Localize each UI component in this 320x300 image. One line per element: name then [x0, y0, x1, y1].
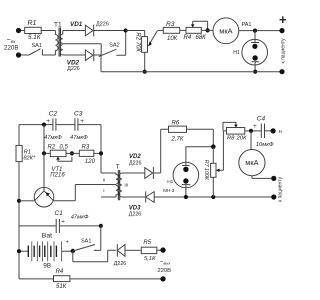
- svg-text:Н1: Н1: [167, 179, 173, 185]
- rheostat R2 0,5: [48, 144, 72, 161]
- wire input to R1: [21, 30, 25, 32]
- lamp H1 МН-3: [163, 147, 198, 197]
- svg-text:+: +: [279, 12, 287, 27]
- svg-text:R7 100К: R7 100К: [203, 160, 209, 181]
- wire T2 sec top to VD2: [122, 172, 145, 174]
- svg-text:0,5: 0,5: [60, 144, 69, 150]
- svg-text:VD3: VD3: [129, 205, 141, 211]
- diode VD1 Д226: [70, 21, 109, 36]
- svg-text:C3: C3: [74, 110, 83, 117]
- node dot VD1/SA2: [124, 29, 128, 33]
- svg-text:10К: 10К: [167, 36, 178, 42]
- wire diode to R5: [125, 249, 141, 251]
- wire R3 to T2 node: [94, 152, 101, 154]
- terminal meter out: [271, 176, 276, 181]
- svg-text:R8: R8: [227, 136, 235, 142]
- left rail bottom circuit: [18, 125, 20, 279]
- junction dot R3 right: [99, 151, 103, 155]
- wire PA1 to output terminal: [239, 30, 282, 32]
- svg-text:Д226: Д226: [129, 212, 141, 218]
- svg-text:T1: T1: [54, 21, 62, 28]
- bottom rail to patient terminal: [154, 196, 274, 198]
- wire emitter to T2 center tap: [54, 185, 116, 201]
- svg-text:+: +: [80, 118, 84, 125]
- potentiometer R7 100K (vertical): [203, 131, 224, 197]
- bottom rail with R4: [19, 278, 163, 280]
- wire base: [19, 200, 34, 202]
- svg-text:47мкФ: 47мкФ: [44, 135, 62, 141]
- svg-text:C4: C4: [257, 115, 266, 122]
- junction dot R2 bottom on rail: [143, 70, 147, 74]
- svg-text:Н1: Н1: [233, 50, 240, 56]
- junction dot R2 right: [70, 151, 74, 155]
- potentiometer R8 20K (rheostat): [223, 122, 247, 141]
- svg-text:+: +: [61, 219, 65, 225]
- svg-text:5,1К: 5,1К: [144, 256, 156, 262]
- svg-text:R2 70К: R2 70К: [135, 32, 141, 52]
- junction dot base/R1: [17, 199, 21, 203]
- svg-text:SA1: SA1: [81, 238, 91, 244]
- potentiometer R4 68K (rheostat): [184, 21, 208, 41]
- svg-text:Т: Т: [116, 164, 120, 170]
- svg-text:Bat: Bat: [42, 233, 52, 240]
- wire VD2 to R6 riser: [153, 129, 168, 173]
- top wire bottom circuit: [19, 125, 101, 173]
- svg-text:R3: R3: [166, 21, 175, 28]
- svg-text:Д226: Д226: [114, 261, 126, 267]
- svg-text:III: III: [124, 183, 128, 189]
- svg-text:+: +: [46, 118, 50, 125]
- svg-text:R3: R3: [82, 144, 90, 150]
- svg-text:+: +: [66, 240, 69, 246]
- svg-text:н: н: [279, 129, 282, 135]
- svg-text:10мкФ: 10мкФ: [256, 142, 274, 148]
- wire T1 sec top to VD1: [63, 30, 86, 32]
- diode VD2 Д226 (bottom): [129, 154, 153, 179]
- svg-text:5.1К: 5.1К: [28, 34, 41, 41]
- diode VD3 Д226: [129, 191, 154, 217]
- wire wiper to R3: [157, 29, 163, 31]
- svg-text:мкА: мкА: [219, 26, 232, 35]
- output terminal top (Uвых): [158, 247, 172, 274]
- resistor R5 5,1K: [141, 240, 157, 262]
- resistor R6 2,7K: [169, 121, 187, 143]
- svg-text:VD1: VD1: [70, 21, 83, 28]
- resistor R1 5.1K: [25, 20, 42, 41]
- capacitor C1 47мкФ: [19, 210, 101, 233]
- svg-text:R2: R2: [48, 144, 56, 150]
- wire R6 to node: [187, 129, 214, 147]
- output terminal top right: [279, 12, 287, 33]
- resistor R4 51K: [54, 269, 70, 290]
- wire R3 to R4: [180, 29, 186, 31]
- wire VD1 to node: [94, 30, 126, 32]
- lamp H1 (neon): [233, 31, 267, 72]
- output terminal bottom: [160, 276, 165, 281]
- wire jog battery to diode: [73, 250, 116, 261]
- resistor R3 10K: [163, 21, 179, 42]
- svg-text:R4: R4: [56, 269, 64, 275]
- svg-text:220В: 220В: [4, 45, 18, 52]
- svg-text:PA1: PA1: [242, 22, 252, 28]
- wire C2 node down to R2: [44, 125, 50, 154]
- bottom rail top circuit: [101, 71, 282, 73]
- switch SA2: [99, 31, 126, 57]
- wire node down to bottom rail: [100, 55, 102, 72]
- potentiometer R2 70K (vertical): [135, 31, 158, 72]
- node dot R6/R7/H1: [211, 144, 216, 149]
- wire H1 to node: [186, 146, 213, 148]
- svg-text:II: II: [103, 177, 106, 183]
- wire C1 node down to SA1 contact: [94, 226, 101, 251]
- svg-text:51К: 51К: [56, 284, 67, 290]
- wire R2 to R3: [66, 152, 79, 154]
- transformer T2: [101, 164, 128, 200]
- terminal rail out: [271, 194, 276, 199]
- svg-text:20К: 20К: [236, 136, 247, 142]
- svg-text:Д226: Д226: [67, 66, 79, 72]
- battery Bat 9В: [19, 233, 73, 270]
- svg-text:мкА: мкА: [245, 158, 258, 167]
- capacitor C4 10мкФ: [253, 115, 274, 148]
- svg-text:VD2: VD2: [129, 154, 141, 160]
- capacitor C3 47мкФ: [70, 110, 88, 141]
- svg-text:R5: R5: [143, 240, 151, 246]
- svg-text:к пациенту: к пациенту: [281, 38, 287, 64]
- rail dot R7 bottom: [211, 195, 215, 199]
- svg-text:к пациенту: к пациенту: [277, 176, 283, 202]
- svg-text:9В: 9В: [43, 263, 51, 270]
- svg-text:C1: C1: [55, 210, 64, 217]
- input terminal bottom: [16, 52, 21, 57]
- transistor VT1 П216: [34, 153, 65, 207]
- node dot C2/emitter: [42, 123, 46, 127]
- node dot C1 right: [99, 224, 103, 228]
- svg-text:~вых: ~вых: [160, 260, 172, 266]
- svg-text:68К: 68К: [196, 35, 207, 41]
- wire C4 to terminal н: [265, 130, 274, 132]
- node dot R8/C4/meter: [249, 129, 253, 133]
- node dot H1 top: [253, 29, 257, 33]
- junction dot R4/wiper: [206, 28, 210, 32]
- svg-text:R1: R1: [24, 149, 31, 155]
- svg-text:2,7К: 2,7К: [171, 136, 184, 142]
- switch SA1 (mains): [21, 43, 56, 55]
- svg-text:R4: R4: [184, 35, 192, 41]
- wire T1 sec bottom to VD2: [63, 54, 86, 56]
- terminal н: [271, 128, 282, 135]
- svg-text:+: +: [253, 123, 257, 130]
- wire R4 to PA1: [201, 29, 213, 31]
- svg-text:47мкФ: 47мкФ: [71, 215, 89, 221]
- svg-text:47мкФ: 47мкФ: [70, 135, 88, 141]
- svg-text:П216: П216: [50, 173, 65, 179]
- capacitor C2 47мкФ: [44, 110, 62, 141]
- svg-text:82К*: 82К*: [24, 156, 36, 162]
- diode Д226 (output): [114, 244, 126, 267]
- wire R1 to T1 primary: [41, 30, 55, 32]
- meter мкА (bottom): [239, 131, 274, 179]
- svg-text:SA1: SA1: [32, 43, 42, 49]
- wire R8 to C4 node: [245, 130, 261, 132]
- diode VD2 Д226: [67, 49, 94, 72]
- junction dot R2 left / emitter: [42, 151, 46, 155]
- svg-text:Д226: Д226: [129, 160, 141, 166]
- switch SA1 (battery): [71, 238, 95, 253]
- junction dot battery left rail: [17, 249, 21, 253]
- svg-text:R6: R6: [172, 121, 180, 127]
- svg-text:МН-3: МН-3: [163, 188, 174, 193]
- svg-text:I: I: [103, 188, 104, 194]
- wire node to R2 top: [126, 31, 145, 37]
- meter PA1 мкА: [213, 18, 252, 44]
- wire R5 to output terminal: [157, 249, 163, 251]
- transformer T1: [54, 21, 101, 56]
- wire T2 sec bottom to VD3: [122, 196, 146, 198]
- svg-text:Д226: Д226: [96, 21, 109, 27]
- resistor R1 82K (vertical): [16, 145, 36, 161]
- svg-text:SA2: SA2: [109, 42, 119, 48]
- rail dot H1 bottom: [184, 195, 188, 199]
- resistor R3 120: [79, 144, 95, 165]
- input terminal top (~220V live): [4, 28, 21, 52]
- svg-text:R1: R1: [28, 20, 37, 27]
- bottom rail dot H1: [253, 70, 257, 74]
- output terminal bottom right: [279, 69, 284, 74]
- svg-text:220В: 220В: [158, 268, 172, 274]
- svg-text:C2: C2: [49, 110, 58, 117]
- wire VD2 to SA2 node: [94, 54, 101, 56]
- svg-text:120: 120: [85, 159, 96, 165]
